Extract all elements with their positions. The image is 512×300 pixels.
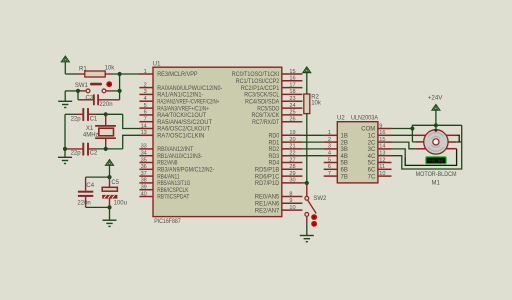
junction C1/X1 top bbox=[104, 112, 108, 116]
svg-text:COM: COM bbox=[361, 127, 375, 133]
capacitor C1 22p bbox=[77, 108, 97, 121]
ground under SW2 bbox=[300, 235, 314, 237]
svg-text:13: 13 bbox=[141, 130, 147, 136]
svg-text:2C: 2C bbox=[368, 140, 376, 146]
wire RD1 to 2B bbox=[302, 141, 323, 143]
svg-text:M1: M1 bbox=[432, 181, 441, 187]
svg-text:C3: C3 bbox=[86, 95, 94, 101]
svg-text:16: 16 bbox=[379, 130, 385, 136]
power +24V arrow bbox=[432, 105, 440, 111]
svg-text:SW2: SW2 bbox=[313, 196, 327, 202]
svg-text:9: 9 bbox=[289, 198, 292, 204]
svg-text:40: 40 bbox=[141, 191, 147, 197]
svg-text:33: 33 bbox=[141, 144, 147, 150]
junction R1/SW1/pin1 bbox=[118, 72, 122, 76]
U2 pin 13 4C bbox=[368, 151, 392, 160]
svg-text:ULN2003A: ULN2003A bbox=[351, 116, 378, 122]
U2 pin 9 COM bbox=[361, 123, 391, 132]
wire 3C loop to motor lower-right pin bbox=[392, 149, 406, 158]
wire 4C outer loop to +24V right rail bbox=[392, 125, 462, 169]
svg-text:14: 14 bbox=[379, 144, 385, 150]
svg-text:37: 37 bbox=[141, 171, 147, 177]
wire SW1 left to ground bbox=[64, 91, 66, 101]
U1 pin 3 RA1/AN1/C12IN1- bbox=[139, 89, 203, 98]
junction COM riser bbox=[410, 126, 414, 130]
svg-text:23: 23 bbox=[289, 96, 295, 102]
wire motor upper-right pin elbow bbox=[457, 135, 459, 142]
resistor R1 10k bbox=[78, 71, 112, 77]
svg-text:RE0/AN5: RE0/AN5 bbox=[255, 195, 280, 201]
wire OSC2 to U1 pin14 bbox=[123, 114, 140, 128]
svg-text:5: 5 bbox=[328, 157, 331, 163]
svg-text:X1: X1 bbox=[86, 126, 94, 132]
wire COM riser to +24V rail bbox=[412, 125, 461, 142]
svg-text:30: 30 bbox=[289, 178, 295, 184]
U2 pin 4 4B bbox=[324, 151, 348, 160]
U1 pin 10 RE2/AN7 bbox=[255, 205, 303, 214]
U1 pin 2 RA0/AN0/ULPWU/C12IN0- bbox=[139, 82, 222, 91]
svg-text:6: 6 bbox=[144, 110, 147, 116]
svg-text:R1: R1 bbox=[79, 66, 87, 72]
U2 pin 14 3C bbox=[368, 144, 392, 153]
svg-text:14: 14 bbox=[141, 123, 147, 129]
junction C4/C5 top bbox=[107, 175, 111, 179]
svg-text:7C: 7C bbox=[368, 174, 376, 180]
U2 pin 1 1B bbox=[324, 130, 348, 139]
junction R2/SW2/RD7 bbox=[305, 181, 309, 185]
wire OSC1 to U1 pin13 bbox=[123, 135, 140, 149]
U1 pin 8 RE0/AN5 bbox=[255, 191, 303, 200]
svg-text:29: 29 bbox=[289, 171, 295, 177]
junction SW1 right / C3 bbox=[118, 89, 122, 93]
svg-text:5: 5 bbox=[144, 103, 147, 109]
U1 pin 1 RE3/MCLR/VPP bbox=[139, 69, 197, 78]
svg-text:RB1/AN10/C12IN3-: RB1/AN10/C12IN3- bbox=[157, 154, 202, 160]
wire SW2 to ground bbox=[306, 223, 308, 235]
U1 pin 34 RB1/AN10/C12IN3- bbox=[139, 151, 202, 160]
svg-text:4MHz: 4MHz bbox=[83, 132, 99, 138]
wire RD0 to 1B bbox=[302, 134, 323, 136]
svg-text:3B: 3B bbox=[341, 147, 348, 153]
U2 pin 5 5B bbox=[324, 157, 348, 166]
capacitor C4 220n bbox=[78, 177, 93, 207]
U1 pin 16 RC1/T1OSI/CCP2 bbox=[236, 76, 303, 85]
svg-text:2: 2 bbox=[328, 137, 331, 143]
capacitor C2 22p bbox=[65, 143, 96, 156]
svg-text:26: 26 bbox=[289, 117, 295, 123]
svg-text:8: 8 bbox=[289, 191, 292, 197]
svg-text:RA4/T0CKI/C1OUT: RA4/T0CKI/C1OUT bbox=[157, 113, 206, 119]
wire VCC to R1 bbox=[65, 73, 78, 75]
svg-text:6B: 6B bbox=[341, 168, 348, 174]
svg-text:+24V: +24V bbox=[428, 94, 443, 101]
U1 pin 37 RB4/AN11 bbox=[139, 171, 180, 180]
crystal X1 4MHz bbox=[95, 114, 116, 149]
U1 pin 26 RC7/RX/DT bbox=[252, 117, 302, 126]
svg-text:RD0: RD0 bbox=[269, 134, 280, 140]
motor M1 rpm display bbox=[426, 157, 446, 165]
svg-text:RD1: RD1 bbox=[269, 140, 280, 146]
svg-text:12: 12 bbox=[379, 157, 385, 163]
U1 pin 23 RC4/SDI/SDA bbox=[245, 96, 302, 105]
svg-text:RE1/AN6: RE1/AN6 bbox=[255, 202, 280, 208]
ground under C4 C5 bbox=[103, 219, 117, 221]
wire junction down to SW1 bbox=[119, 74, 121, 91]
U1 pin 17 RC2/P1A/CCP1 bbox=[241, 82, 303, 91]
svg-text:220n: 220n bbox=[99, 102, 112, 108]
svg-text:10k: 10k bbox=[311, 101, 322, 107]
switch SW2 SPST bbox=[305, 183, 316, 223]
U2 pin 12 5C bbox=[368, 157, 392, 166]
svg-text:RA7/OSC1/CLKIN: RA7/OSC1/CLKIN bbox=[157, 134, 204, 140]
wire C1 to OSC2 corner bbox=[96, 113, 123, 115]
wire down to C3 left bbox=[77, 91, 79, 100]
svg-text:RB6/ICSPCLK: RB6/ICSPCLK bbox=[157, 188, 188, 194]
svg-text:27: 27 bbox=[289, 157, 295, 163]
wire RD3 to 4B bbox=[302, 155, 323, 157]
svg-text:RC1/T1OSI/CCP2: RC1/T1OSI/CCP2 bbox=[236, 79, 280, 85]
svg-text:U2: U2 bbox=[337, 116, 345, 122]
svg-text:3: 3 bbox=[144, 89, 147, 95]
junction rail/C2 bbox=[63, 147, 67, 151]
svg-text:4: 4 bbox=[328, 151, 331, 157]
svg-text:RD6/P1C: RD6/P1C bbox=[255, 174, 280, 180]
SW1 interactive red marker bbox=[106, 81, 112, 87]
U1 pin 15 RC0/T1OSO/T1CKI bbox=[232, 69, 303, 78]
U2 pin 3 3B bbox=[324, 144, 348, 153]
U1 pin 36 RB3/AN9/PGM/C12IN2- bbox=[139, 164, 214, 173]
U2 pin 11 6C bbox=[368, 164, 392, 173]
svg-text:RC3/SCK/SCL: RC3/SCK/SCL bbox=[244, 93, 280, 99]
svg-text:RA0/AN0/ULPWU/C12IN0-: RA0/AN0/ULPWU/C12IN0- bbox=[157, 86, 222, 92]
switch SW1 push-button bbox=[80, 83, 112, 93]
svg-text:220n: 220n bbox=[77, 200, 90, 206]
U2 pin 6 6B bbox=[324, 164, 348, 173]
svg-text:1: 1 bbox=[328, 130, 331, 136]
svg-text:RB5/AN13/T1G: RB5/AN13/T1G bbox=[157, 181, 190, 187]
svg-text:18: 18 bbox=[289, 89, 295, 95]
U1 pin 7 RA5/AN4/SS/C2OUT bbox=[139, 117, 212, 126]
svg-text:RA6/OSC2/CLKOUT: RA6/OSC2/CLKOUT bbox=[157, 127, 210, 133]
U1 pin 21 RD2 bbox=[269, 144, 303, 153]
svg-text:38: 38 bbox=[141, 178, 147, 184]
wire COM riser elbow to motor middle-left pin bbox=[412, 141, 415, 143]
U1 pin 40 RB7/ICSPDAT bbox=[139, 191, 189, 200]
svg-text:RA5/AN4/SS/C2OUT: RA5/AN4/SS/C2OUT bbox=[157, 120, 212, 126]
microcontroller U1 PIC16F887 bbox=[153, 67, 282, 216]
driver U2 ULN2003A bbox=[337, 122, 378, 183]
svg-text:35: 35 bbox=[141, 157, 147, 163]
svg-text:22p: 22p bbox=[71, 151, 82, 157]
svg-text:SW1: SW1 bbox=[75, 83, 89, 89]
svg-text:22: 22 bbox=[289, 151, 295, 157]
wire junction to C4 branch bbox=[86, 176, 110, 178]
U1 pin 25 RC6/TX/CK bbox=[252, 110, 303, 119]
svg-text:C4: C4 bbox=[86, 183, 94, 189]
svg-text:RC0/T1OSO/T1CKI: RC0/T1OSO/T1CKI bbox=[232, 72, 280, 78]
svg-text:RE2/AN7: RE2/AN7 bbox=[255, 208, 280, 214]
svg-text:RC6/TX/CK: RC6/TX/CK bbox=[252, 113, 280, 119]
svg-text:11: 11 bbox=[379, 164, 385, 170]
svg-text:RA3/AN3/VREF+/C1IN+: RA3/AN3/VREF+/C1IN+ bbox=[157, 106, 209, 112]
U1 pin 9 RE1/AN6 bbox=[255, 198, 303, 207]
svg-text:19: 19 bbox=[289, 130, 295, 136]
ground under left rail bbox=[58, 156, 72, 158]
U1 pin 20 RD1 bbox=[269, 137, 303, 146]
U1 pin 19 RD0 bbox=[269, 130, 303, 139]
power +V arrow top-left bbox=[61, 56, 69, 62]
svg-text:1: 1 bbox=[144, 69, 147, 75]
motor M1 MOTOR-BLDCM bbox=[415, 129, 457, 154]
svg-text:20: 20 bbox=[289, 137, 295, 143]
U1 pin 29 RD6/P1C bbox=[255, 171, 303, 180]
wire 2C to motor lower-left pin bbox=[392, 142, 416, 149]
svg-text:C2: C2 bbox=[90, 151, 98, 157]
svg-text:RA1/AN1/C12IN1-: RA1/AN1/C12IN1- bbox=[157, 93, 203, 99]
svg-text:RB3/AN9/PGM/C12IN2-: RB3/AN9/PGM/C12IN2- bbox=[157, 168, 214, 174]
svg-text:100u: 100u bbox=[114, 200, 127, 206]
svg-text:7: 7 bbox=[328, 171, 331, 177]
wire C4 C5 bottoms bbox=[86, 206, 110, 208]
svg-text:25: 25 bbox=[289, 110, 295, 116]
svg-text:RC4/SDI/SDA: RC4/SDI/SDA bbox=[245, 99, 279, 105]
svg-text:3: 3 bbox=[328, 144, 331, 150]
svg-text:9: 9 bbox=[379, 123, 382, 129]
U2 pin 7 7B bbox=[324, 171, 348, 180]
svg-text:39: 39 bbox=[141, 185, 147, 191]
svg-text:36: 36 bbox=[141, 164, 147, 170]
U1 pin 28 RD5/P1B bbox=[255, 164, 303, 173]
ground under SW1 bbox=[58, 100, 72, 102]
wire arrow stem to junction bbox=[109, 165, 111, 177]
power +V arrow above R2 bbox=[303, 67, 311, 73]
wire arrow to R2 bbox=[306, 73, 308, 94]
U1 pin 27 RD4 bbox=[269, 157, 303, 166]
capacitor C5 100u electrolytic bbox=[102, 177, 117, 207]
svg-text:RD4: RD4 bbox=[269, 161, 280, 167]
svg-text:16: 16 bbox=[289, 76, 295, 82]
svg-text:RB0/AN12/INT: RB0/AN12/INT bbox=[157, 147, 193, 153]
U1 pin 22 RD3 bbox=[269, 151, 303, 160]
svg-text:RC7/RX/DT: RC7/RX/DT bbox=[252, 120, 279, 126]
U1 pin 39 RB6/ICSPCLK bbox=[139, 185, 188, 194]
svg-text:10: 10 bbox=[379, 171, 385, 177]
svg-text:RD3: RD3 bbox=[269, 154, 280, 160]
svg-text:RC5/SDO: RC5/SDO bbox=[257, 106, 279, 112]
svg-text:6: 6 bbox=[328, 164, 331, 170]
svg-text:C1: C1 bbox=[90, 117, 98, 123]
svg-text:RE3/MCLR/VPP: RE3/MCLR/VPP bbox=[157, 72, 197, 78]
capacitor C3 220n bbox=[78, 94, 120, 105]
svg-text:2B: 2B bbox=[341, 140, 348, 146]
svg-text:6C: 6C bbox=[368, 168, 376, 174]
svg-text:+0.00: +0.00 bbox=[429, 159, 443, 165]
junction +24V / COM wire bbox=[434, 123, 438, 127]
wire +24V arrow down to motor top bbox=[435, 110, 437, 130]
svg-text:10k: 10k bbox=[105, 66, 116, 72]
svg-text:RB4/AN11: RB4/AN11 bbox=[157, 174, 180, 180]
wire U1 pin30 to junction bbox=[302, 182, 306, 184]
svg-text:U1: U1 bbox=[153, 61, 161, 67]
svg-text:RD5/P1B: RD5/P1B bbox=[255, 168, 279, 174]
wire COM from U2 pin9 bbox=[392, 128, 413, 130]
svg-text:MOTOR-BLDCM: MOTOR-BLDCM bbox=[416, 172, 457, 178]
wire C2 to OSC1 corner bbox=[96, 148, 123, 150]
svg-text:22p: 22p bbox=[71, 117, 82, 123]
svg-text:RB7/ICSPDAT: RB7/ICSPDAT bbox=[157, 195, 189, 201]
svg-text:PIC16F887: PIC16F887 bbox=[154, 219, 181, 225]
U1 pin 30 RD7/P1D bbox=[255, 178, 303, 187]
svg-text:C5: C5 bbox=[111, 180, 119, 186]
svg-text:RB2/AN8: RB2/AN8 bbox=[157, 161, 178, 167]
U2 pin 10 7C bbox=[368, 171, 392, 180]
svg-text:2: 2 bbox=[144, 82, 147, 88]
svg-text:21: 21 bbox=[289, 144, 295, 150]
U1 pin 5 RA3/AN3/VREF+/C1IN+ bbox=[139, 103, 209, 112]
U2 pin 16 1C bbox=[368, 130, 392, 139]
svg-text:5C: 5C bbox=[368, 161, 376, 167]
wire RD2 to 3B bbox=[302, 148, 323, 150]
svg-text:4B: 4B bbox=[341, 154, 348, 160]
resistor R2 10k bbox=[304, 94, 310, 114]
U1 pin 6 RA4/T0CKI/C1OUT bbox=[139, 110, 206, 119]
svg-text:RD7/P1D: RD7/P1D bbox=[255, 181, 280, 187]
wire R1 to U1 pin1 bbox=[112, 73, 140, 75]
svg-text:RA2/AN2/VREF-/CVREF/C2IN+: RA2/AN2/VREF-/CVREF/C2IN+ bbox=[157, 99, 219, 105]
svg-text:34: 34 bbox=[141, 151, 147, 157]
U2 pin 2 2B bbox=[324, 137, 348, 146]
wire SW1 right bbox=[112, 90, 120, 92]
svg-text:4: 4 bbox=[144, 96, 147, 102]
svg-text:24: 24 bbox=[289, 103, 295, 109]
wire SW1 left bbox=[65, 90, 80, 92]
U1 pin 24 RC5/SDO bbox=[257, 103, 302, 112]
U1 pin 13 RA7/OSC1/CLKIN bbox=[139, 130, 204, 139]
junction C4/C5 bottom bbox=[107, 205, 111, 209]
wire left rail to C1 bbox=[65, 113, 77, 115]
SW2 interactive red markers bbox=[311, 214, 317, 227]
svg-text:17: 17 bbox=[289, 82, 295, 88]
junction C2/X1 bottom bbox=[104, 147, 108, 151]
svg-text:4C: 4C bbox=[368, 154, 376, 160]
svg-text:RC2/P1A/CCP1: RC2/P1A/CCP1 bbox=[241, 86, 280, 92]
U1 pin 18 RC3/SCK/SCL bbox=[244, 89, 302, 98]
svg-text:R2: R2 bbox=[311, 94, 319, 100]
svg-text:RD2: RD2 bbox=[269, 147, 280, 153]
wire VCC arrow stem bbox=[64, 62, 66, 74]
U1 pin 33 RB0/AN12/INT bbox=[139, 144, 193, 153]
svg-text:5B: 5B bbox=[341, 161, 348, 167]
U1 pin 4 RA2/AN2/VREF-/CVREF/C2IN+ bbox=[139, 96, 219, 105]
svg-text:3C: 3C bbox=[368, 147, 376, 153]
svg-text:7: 7 bbox=[144, 117, 147, 123]
U1 pin 35 RB2/AN8 bbox=[139, 157, 178, 166]
wire left rail down bbox=[64, 114, 66, 157]
svg-text:15: 15 bbox=[379, 137, 385, 143]
U2 pin 15 2C bbox=[368, 137, 392, 146]
wire down to C3 right bbox=[119, 91, 121, 100]
svg-text:7B: 7B bbox=[341, 174, 348, 180]
svg-text:15: 15 bbox=[289, 69, 295, 75]
svg-text:1B: 1B bbox=[341, 134, 348, 140]
power +V arrow above C4 C5 bbox=[106, 160, 114, 166]
wire to ground bbox=[109, 207, 111, 220]
wire right rail elbow to motor middle-right pin bbox=[456, 141, 461, 143]
U1 pin 38 RB5/AN13/T1G bbox=[139, 178, 190, 187]
wire R2 down to junction bbox=[306, 114, 308, 183]
junction SW1 left / C3 bbox=[76, 89, 80, 93]
svg-text:10: 10 bbox=[289, 205, 295, 211]
svg-text:13: 13 bbox=[379, 151, 385, 157]
svg-text:1C: 1C bbox=[368, 134, 376, 140]
wire 1C to motor upper-left pin bbox=[392, 134, 415, 136]
svg-text:28: 28 bbox=[289, 164, 295, 170]
U1 pin 14 RA6/OSC2/CLKOUT bbox=[139, 123, 210, 132]
